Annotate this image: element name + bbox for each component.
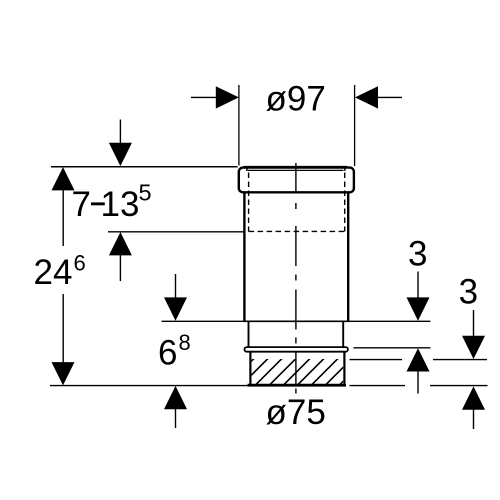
ext line step level right bbox=[349, 320, 430, 322]
spigot bottom edge bbox=[248, 384, 347, 387]
mid section wall right bbox=[342, 322, 344, 347]
svg-text:246: 246 bbox=[34, 250, 86, 292]
socket rim top line bbox=[244, 166, 348, 168]
label 7-13 dash bbox=[91, 202, 105, 205]
svg-text:7135: 7135 bbox=[72, 179, 152, 224]
ext line step level left bbox=[162, 320, 244, 322]
dim 24.6 arrow up bbox=[52, 167, 75, 190]
dim ø97 tail left bbox=[191, 96, 217, 98]
svg-text:3: 3 bbox=[408, 235, 427, 274]
svg-text:ø97: ø97 bbox=[266, 79, 326, 118]
inner bore bottom dashed bbox=[249, 230, 345, 232]
ext line ridge top right bbox=[354, 347, 431, 349]
dim 7-13 arrow down bbox=[119, 120, 121, 144]
dim 3 lower arrow down bbox=[473, 310, 475, 336]
gasket ridge bbox=[244, 347, 348, 352]
mid section wall left bbox=[248, 322, 250, 347]
dim ø97 arrow left bbox=[216, 86, 239, 108]
inner bore dashed right bbox=[344, 173, 346, 232]
dim 6.8 arrow down bbox=[175, 274, 177, 298]
centerline bbox=[295, 163, 297, 394]
socket chamfer line bbox=[248, 169, 344, 171]
spigot wall left bbox=[249, 352, 251, 385]
svg-text:68: 68 bbox=[158, 330, 191, 373]
ext line bottom level bbox=[50, 385, 488, 387]
dim 7-13 arrow up bbox=[109, 232, 132, 255]
svg-text:3: 3 bbox=[459, 273, 478, 312]
dim ø97 tail right bbox=[378, 96, 402, 98]
dim ø97 arrow right bbox=[355, 86, 378, 108]
chamfer tick left bbox=[246, 167, 248, 171]
ext line collar top level bbox=[51, 166, 238, 168]
svg-text:ø75: ø75 bbox=[266, 393, 326, 432]
dim 3 upper arrow up bbox=[407, 348, 430, 371]
ext line socket depth level bbox=[108, 231, 243, 233]
spigot hatching bbox=[226, 358, 367, 387]
dim ø97 ext line left bbox=[238, 85, 240, 166]
body wall left bbox=[243, 193, 245, 322]
sleeve collar bbox=[239, 168, 354, 193]
inner bore dashed left bbox=[248, 173, 250, 232]
ext line hatch top right bbox=[350, 359, 488, 361]
chamfer tick right bbox=[344, 167, 346, 171]
dim 3 upper arrow down bbox=[417, 272, 419, 299]
dim 24.6 arrow down bbox=[62, 294, 64, 363]
spigot wall right bbox=[343, 352, 345, 385]
dim 3 lower arrow up bbox=[462, 386, 485, 409]
body wall right bbox=[347, 193, 349, 322]
dim 6.8 arrow up bbox=[164, 386, 187, 409]
body step line bbox=[243, 320, 349, 322]
dim ø97 ext line right bbox=[354, 85, 356, 166]
